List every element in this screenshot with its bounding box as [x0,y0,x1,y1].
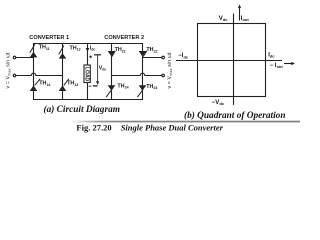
svg-text:−Vdc: −Vdc [212,100,225,106]
svg-text:TH21: TH21 [115,47,126,53]
svg-text:(b) Quadrant of Operation: (b) Quadrant of Operation [184,110,286,121]
svg-text:TH11: TH11 [39,45,50,51]
svg-text:Vdc: Vdc [99,66,107,72]
svg-text:CONVERTER 1: CONVERTER 1 [29,35,69,41]
svg-text:TH23: TH23 [146,84,157,90]
svg-text:TH12: TH12 [70,45,81,51]
svg-text:TH14: TH14 [39,81,50,87]
svg-text:− Iout: − Iout [270,63,284,69]
svg-text:v = Vmax sin ωt: v = Vmax sin ωt [5,52,11,88]
svg-text:Single Phase Dual Converter: Single Phase Dual Converter [121,123,224,133]
svg-text:Idc: Idc [268,53,275,59]
svg-text:CONVERTER 2: CONVERTER 2 [104,35,144,41]
svg-text:TH13: TH13 [67,81,78,87]
svg-text:LOAD: LOAD [83,67,89,82]
svg-text:−Idc: −Idc [178,53,189,59]
svg-text:(a) Circuit Diagram: (a) Circuit Diagram [44,104,120,115]
svg-text:Idc: Idc [90,45,96,51]
svg-text:Vdc: Vdc [219,16,228,22]
svg-text:v = Vmax sin ωt: v = Vmax sin ωt [167,52,173,88]
svg-text:TH24: TH24 [117,83,128,89]
svg-text:Fig. 27.20: Fig. 27.20 [76,123,111,133]
svg-text:Iout: Iout [241,16,250,22]
svg-text:TH22: TH22 [146,47,157,53]
